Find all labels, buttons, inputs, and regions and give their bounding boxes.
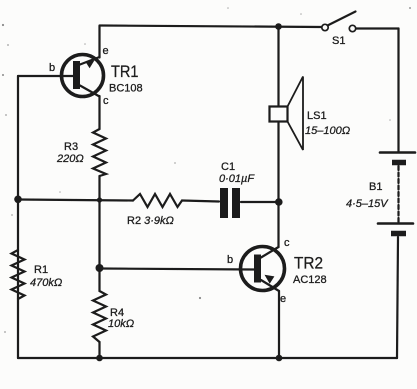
node C1 / speaker column [275,198,283,206]
speaker LS1 frame [270,107,288,122]
pin label b TR2 [227,254,233,266]
value 10k ohm [108,318,134,330]
wire right rail lower (battery bottom to bottom rail) [397,237,398,358]
svg-text:AC128: AC128 [293,274,327,286]
wire C1 node to TR2 collector [277,202,279,247]
label TR1 [111,62,139,81]
speaker LS1 cone [288,77,304,151]
transistor TR1 collector line [80,86,100,97]
svg-text:C1: C1 [221,161,235,173]
label C1 [221,161,235,173]
transistor TR2 emitter arrow [265,275,275,284]
wire TR2 base junction to R4 [98,268,100,291]
svg-text:TR1: TR1 [111,62,139,81]
value 4.5-15V [346,198,389,210]
battery B1 top long plate [380,151,415,154]
label R4 [110,307,124,319]
wire TR1 emitter to top rail [98,26,100,58]
svg-text:e: e [280,293,286,305]
label B1 [369,181,382,193]
svg-text:TR2: TR2 [294,254,323,273]
pin label b TR1 [49,62,55,74]
svg-text:470kΩ: 470kΩ [30,277,62,289]
svg-text:220Ω: 220Ω [56,153,84,165]
value 470k ohm [30,277,62,289]
node TR2 base / center column [96,264,104,272]
label R2 value [127,215,174,227]
wire center column (node row to TR2 base junction) [98,200,100,269]
transistor TR2 collector line [261,247,279,258]
battery B1 top short plate [392,160,406,166]
node top rail / speaker column [275,23,282,30]
svg-text:10kΩ: 10kΩ [108,318,134,330]
svg-text:0·01µF: 0·01µF [219,173,255,185]
wire TR1 base [18,75,73,77]
pin label c TR2 [284,237,290,249]
svg-text:B1: B1 [369,181,382,193]
value 0.01uF [219,173,255,185]
svg-text:b: b [227,254,233,266]
svg-text:BC108: BC108 [109,83,143,95]
wire C1 right to node [241,201,279,203]
label S1 [332,35,345,47]
transistor TR1 base bar [73,61,80,89]
wire R2 right to C1 [182,201,219,202]
transistor TR2 emitter line [261,280,279,291]
switch S1 left contact [322,24,328,30]
pin label e TR1 [103,45,109,57]
resistor R4 [93,291,106,342]
svg-text:R3: R3 [64,141,78,153]
wire speaker column upper (top rail to LS1) [277,26,279,107]
transistor TR1 circle [62,55,104,97]
capacitor C1 right plate [232,188,240,218]
wire bottom rail [18,357,397,359]
pin label c TR1 [103,95,109,107]
svg-text:R1: R1 [34,264,48,276]
label R3 [64,141,78,153]
wire right rail upper (corner down to battery top) [397,29,399,153]
value 15-100 ohm [305,125,350,137]
transistor TR1 emitter arrow [85,60,94,68]
wire top rail right (switch to battery corner) [356,27,399,29]
svg-text:S1: S1 [332,35,345,47]
resistor R1 [12,250,25,299]
switch S1 lever [328,12,356,26]
switch S1 right contact [349,25,355,31]
transistor TR1 emitter line [80,57,100,65]
wire between battery cells [397,166,399,222]
node TR2 emitter / bottom rail [276,355,283,362]
svg-text:4·5–15V: 4·5–15V [346,198,389,210]
svg-text:e: e [103,45,109,57]
svg-text:c: c [284,237,290,249]
battery B1 bottom short plate [391,231,406,237]
svg-text:R2 3·9kΩ: R2 3·9kΩ [127,215,174,227]
label LS1 [307,110,327,122]
node center column / node row [97,197,102,202]
wire left rail (TR1 base corner down to bottom rail) [17,76,19,358]
svg-text:LS1: LS1 [307,110,327,122]
pin label e TR2 [280,293,286,305]
wire top rail left (from TR1 top to switch) [100,26,322,28]
wire TR2 base [100,269,255,270]
label R1 [34,264,48,276]
wire speaker column lower (LS1 to C1 node) [277,121,279,202]
battery B1 bottom long plate [378,222,413,225]
wire node row horizontal (left rail to R2) [18,200,133,201]
capacitor C1 left plate [220,188,228,218]
node left rail / node row [14,196,22,204]
node R4 bottom rail [96,355,103,362]
svg-text:15–100Ω: 15–100Ω [305,125,350,137]
wire TR1 collector to R3 [98,96,100,129]
wire R3 bottom to node row [98,176,100,200]
svg-text:c: c [103,95,109,107]
wire TR2 emitter to bottom rail [278,291,280,358]
value 220 ohm [56,153,84,165]
wire R4 bottom to bottom rail [98,342,100,358]
svg-text:b: b [49,62,55,74]
label AC128 [293,274,327,286]
resistor R3 [93,129,106,176]
label BC108 [109,83,143,95]
transistor TR2 base bar [254,255,261,283]
resistor R2 [133,194,182,207]
transistor TR2 circle [241,247,285,291]
label TR2 [294,254,323,273]
